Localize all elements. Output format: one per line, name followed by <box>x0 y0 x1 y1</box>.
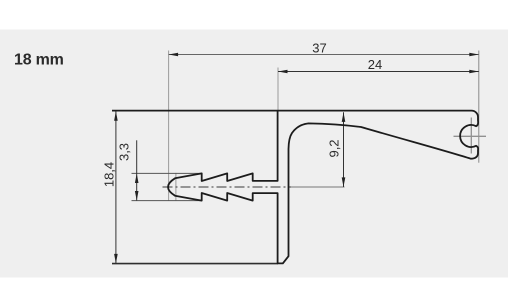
dimension line 18,4 <box>115 111 117 263</box>
arrow 9,2 up <box>342 112 346 122</box>
svg-text:24: 24 <box>368 57 382 72</box>
bottom extension line / profile bottom <box>112 263 278 265</box>
dimension line 37 <box>169 54 479 56</box>
dimension line 24 <box>278 71 479 73</box>
svg-text:37: 37 <box>312 41 326 56</box>
svg-text:3,3: 3,3 <box>116 143 131 161</box>
arrow 24 left <box>278 70 288 73</box>
dimension line 3,3 <box>136 140 138 200</box>
dimension line 9,2 <box>343 112 345 187</box>
arrow 24 right <box>469 70 479 73</box>
extension line at wall left edge (for dim 24) <box>277 68 279 112</box>
screw port crosshair horizontal <box>454 135 487 137</box>
extension line 3,3 bottom <box>132 200 202 202</box>
arrow 37 left <box>169 53 179 56</box>
profile outline <box>112 111 478 264</box>
centerline of anchor (dash-dot) <box>163 186 292 188</box>
arrow 18,4 top <box>114 111 118 121</box>
arrow 3,3 up <box>135 174 139 184</box>
extension line at anchor tip (for dim 37) <box>168 51 170 201</box>
svg-text:9,2: 9,2 <box>327 139 342 157</box>
extension line at anchor nose tangent <box>175 173 177 201</box>
arrow 3,3 down <box>135 191 139 201</box>
arrow 37 right <box>469 53 479 56</box>
screw port crosshair vertical <box>470 118 472 154</box>
svg-text:18 mm: 18 mm <box>14 52 64 69</box>
arrow 9,2 down <box>342 177 346 187</box>
extension line at profile right edge <box>478 51 480 163</box>
extension line 3,3 top <box>132 172 202 174</box>
centerline extension to 9,2 dimension <box>291 186 345 188</box>
svg-text:18,4: 18,4 <box>101 162 116 187</box>
arrow 18,4 bottom <box>114 254 118 264</box>
